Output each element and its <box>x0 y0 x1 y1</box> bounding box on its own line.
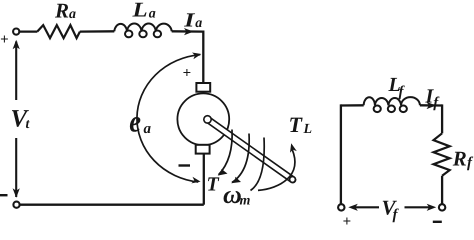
svg-text:T: T <box>289 112 304 137</box>
field left wire <box>340 104 342 203</box>
ea arc <box>137 55 200 182</box>
svg-text:f: f <box>399 84 406 100</box>
rotation arc omega <box>232 134 249 183</box>
ea arrow bottom <box>191 177 200 184</box>
label Ia <box>183 9 202 31</box>
label Rf <box>452 147 474 171</box>
bottom rail wire <box>20 204 204 206</box>
svg-text:m: m <box>240 194 251 209</box>
wire motor to bottom rail <box>203 154 205 205</box>
svg-text:+: + <box>343 214 352 230</box>
field right wire upper <box>441 104 443 133</box>
minus (Vf negative) <box>433 221 442 223</box>
label Vf <box>382 195 400 223</box>
motor circle <box>177 93 229 145</box>
svg-text:R: R <box>452 147 467 171</box>
rotation arc plain <box>251 138 265 191</box>
svg-text:f: f <box>393 207 400 223</box>
svg-text:R: R <box>54 0 69 22</box>
inductor Lf <box>364 97 420 112</box>
minus (motor bottom) <box>179 164 191 166</box>
svg-text:a: a <box>149 7 156 22</box>
svg-text:L: L <box>131 0 147 22</box>
wire <box>20 30 38 32</box>
resistor Ra <box>37 25 80 38</box>
field right wire lower <box>441 176 443 204</box>
Vt arrow down <box>15 138 17 197</box>
svg-text:+: + <box>183 66 192 82</box>
svg-text:e: e <box>129 103 141 138</box>
inductor La <box>114 24 171 38</box>
svg-text:f: f <box>467 155 474 171</box>
svg-text:L: L <box>303 122 313 137</box>
rotation arc TL <box>258 150 295 191</box>
motor brush top <box>196 83 210 92</box>
rotation arc T <box>219 130 233 175</box>
wire with Ia arrow <box>172 30 204 33</box>
svg-text:I: I <box>183 9 196 31</box>
Vt arrow up <box>15 42 17 101</box>
wire <box>80 30 115 33</box>
label Vt <box>11 105 31 132</box>
label omega m <box>223 180 251 209</box>
wire down to motor <box>202 31 204 84</box>
minus (Vt negative) <box>0 194 8 196</box>
resistor Rf <box>434 133 450 176</box>
label If <box>425 86 441 111</box>
ea arrow top <box>192 53 201 60</box>
label ea <box>129 103 151 138</box>
Vf arrow left <box>353 206 380 208</box>
svg-text:a: a <box>195 16 202 31</box>
field top wire right with If arrow <box>420 104 442 106</box>
Vf arrow right <box>405 206 433 208</box>
svg-text:t: t <box>26 117 31 132</box>
field terminal circle left <box>338 204 344 210</box>
arrow Ia <box>184 28 194 35</box>
shaft <box>204 116 296 183</box>
terminal circle bottom-left <box>13 202 19 208</box>
label Ra <box>54 0 76 22</box>
field terminal circle right <box>439 204 445 210</box>
svg-text:+: + <box>0 32 9 48</box>
terminal circle top-left <box>13 29 19 35</box>
label Lf <box>388 74 406 100</box>
label La <box>131 0 155 22</box>
field top wire left <box>341 104 364 106</box>
svg-text:f: f <box>433 95 440 111</box>
svg-text:a: a <box>69 7 76 22</box>
svg-text:a: a <box>144 121 152 137</box>
svg-text:T: T <box>207 174 220 196</box>
label TL <box>289 112 313 137</box>
motor brush bottom <box>196 145 210 154</box>
